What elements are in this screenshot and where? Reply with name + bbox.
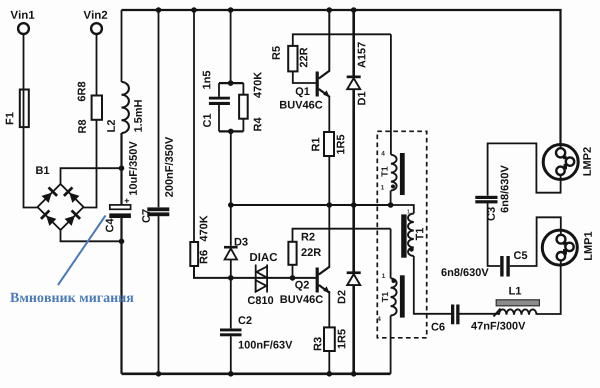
junction node A bridge plus (119, 165, 125, 171)
value label 10uF/350V (129, 141, 137, 195)
label Q2 (295, 281, 309, 291)
value label 6R8 (78, 82, 86, 101)
label T1 winding1 (381, 167, 387, 177)
value label 470K (200, 215, 208, 241)
wire Q2 emitter to R3 (328, 291, 330, 327)
label R2 (302, 233, 315, 241)
lamp LMP1 (542, 230, 577, 265)
label C4 (106, 219, 114, 233)
junction node bus-D1 (351, 7, 357, 13)
wire C3 top to LMP2 bottom pin (488, 143, 561, 195)
junction node bus-Q1 (327, 7, 333, 13)
wire Q1 collector from bus (328, 10, 330, 71)
pin number 4 T1 winding3 bottom (377, 317, 381, 322)
resistor R1 (324, 132, 334, 156)
wire R2 top to T1 winding3 (293, 229, 391, 242)
value label BUV46C (281, 295, 323, 303)
wire DC bus top rail (122, 10, 561, 145)
label DIAC (250, 253, 277, 261)
wire R6 column from bus (193, 10, 195, 242)
wire L1 to LMP1 bottom pin (537, 265, 561, 314)
wire bus to D1 (352, 10, 355, 76)
wire C1 R4 bottom connector (219, 130, 243, 132)
label L1 (509, 287, 521, 295)
label C1 (203, 114, 211, 127)
capacitor C1 (209, 97, 230, 105)
junction node midpoint-T1 (388, 202, 394, 208)
junction node bus-C1R4 (228, 7, 234, 13)
fuse F1 (20, 90, 29, 128)
label LMP2 (583, 147, 591, 175)
transformer T1 winding 1 core (400, 153, 405, 195)
pin number 1 T1 winding2 top (407, 209, 410, 213)
label C3 (487, 207, 495, 220)
label D1 (358, 92, 366, 105)
pin number 4 T1 winding1 top (381, 151, 385, 156)
label T1 winding2 (416, 228, 424, 240)
transformer T1 winding 1 polarity dot (391, 185, 395, 189)
wire T1 winding1 top lead (390, 34, 392, 154)
value label 47nF/300V (471, 322, 525, 330)
wire R3 to bottom rail (328, 351, 330, 374)
wire C7 column upper (158, 10, 160, 207)
transformer T1 winding 3 (391, 278, 397, 315)
label R1 (312, 138, 320, 151)
wire R2 bottom to diac rail (292, 265, 294, 278)
wire L2 to C4 column (120, 133, 122, 205)
diode D1 (347, 76, 361, 90)
diode D3 (224, 246, 238, 260)
wire LMP1 top pin to C5 (510, 217, 561, 266)
label D2 (338, 290, 346, 303)
capacitor C3 (475, 196, 497, 204)
value label 22R (301, 248, 321, 256)
value label 1R5 (337, 135, 345, 154)
label F1 (6, 112, 14, 124)
transformer T1 dashed enclosure (377, 131, 426, 337)
wire bottom rail (122, 372, 391, 375)
transformer T1 winding 2 core (401, 214, 406, 257)
label D3 (235, 238, 248, 246)
inductor L1 (494, 300, 540, 317)
junction node bus-R6 (191, 7, 197, 13)
terminal Vin2 (91, 23, 102, 34)
inductor L2 (122, 82, 129, 133)
wire T1 winding3 bottom to rail (390, 316, 392, 374)
wire D2 to bottom rail (352, 284, 355, 374)
capacitor C6 (451, 305, 460, 325)
capacitor C2 (220, 329, 242, 337)
junction node midpoint-Q (327, 202, 333, 208)
annotation text blue (10, 293, 133, 302)
value label 22R (300, 48, 308, 68)
value label BUV46C (280, 101, 322, 109)
value label 200nF/350V (165, 137, 173, 197)
value label A157 (358, 42, 366, 68)
junction node bus-C7 (156, 7, 162, 13)
label R6 (200, 250, 208, 263)
label C2 (239, 316, 252, 324)
wire R1 to midpoint (328, 156, 330, 205)
wire D3 anode lead (230, 205, 232, 246)
label R3 (314, 337, 322, 350)
label R4 (254, 118, 262, 131)
junction node bottom-R3 (327, 371, 333, 377)
wire D3 to diac rail (230, 260, 232, 329)
wire C5 to C3 column (488, 203, 501, 266)
transformer T1 winding 3 core (400, 275, 405, 317)
value label 470K (254, 72, 262, 98)
wire R5 top to T1 winding1 (293, 34, 391, 46)
resistor R6 (190, 242, 198, 266)
junction node B bridge minus (119, 239, 125, 245)
wire C6 to L1 (460, 313, 500, 315)
wire R5 bottom to Q1 base (293, 71, 316, 83)
terminal Vin1 (18, 23, 29, 34)
wire Vin1 to bridge left corner (24, 34, 38, 208)
label R5 (272, 46, 280, 59)
wire T1 winding2 bottom to C6 (414, 256, 451, 314)
wire T1 winding3 top lead (390, 229, 392, 279)
label R8 (78, 120, 86, 133)
junction node bottom-C7 (156, 371, 162, 377)
label Vin1 (11, 10, 35, 18)
junction node midpoint-D (351, 202, 357, 208)
wire Vin2 through R8 to bridge right corner (84, 34, 97, 208)
wire midpoint rail (231, 204, 391, 206)
resistor R5 (288, 46, 297, 72)
wire bridge top corner to node A (61, 168, 122, 184)
junction node diac rail D3 (228, 275, 234, 281)
label C7 (142, 209, 150, 222)
value label C810 (248, 296, 273, 304)
lamp LMP2 (543, 145, 578, 180)
label L2 (107, 120, 115, 132)
junction node C1R4 bottom (228, 129, 234, 135)
label C6 (432, 323, 445, 331)
wire C7 column lower (158, 216, 160, 374)
wire D1 to midpoint (352, 89, 355, 205)
wire midpoint dot to T1 winding2 top (391, 205, 414, 214)
wire R4 legs (242, 83, 244, 131)
wire C1R4 junction down to midpoint (230, 131, 232, 205)
wire C1 legs (218, 83, 220, 131)
diode D2 (347, 271, 361, 285)
wire bus stub to C1 R4 pair (230, 10, 232, 83)
transformer T1 winding 1 (391, 155, 397, 191)
resistor R8 (92, 96, 102, 120)
diac (256, 265, 267, 293)
wire Q1 emitter to R1 (328, 97, 330, 133)
junction node diac rail R2 (290, 275, 296, 281)
pin number 1 T1 winding3 top (382, 274, 385, 279)
capacitor C7 (147, 207, 169, 216)
label Vin2 (84, 10, 108, 18)
label B1 (36, 166, 49, 174)
wire L2 column upper (121, 10, 123, 82)
wire midpoint to Q2 collector (328, 205, 330, 267)
capacitor C5 (500, 256, 510, 277)
wire C4 to bottom rail (120, 218, 122, 374)
junction node C1R4 top (228, 80, 234, 86)
resistor R4 (239, 95, 248, 119)
transformer T1 winding 3 polarity dot (392, 279, 396, 283)
capacitor C4 polarized (109, 199, 131, 219)
label T1 winding3 (382, 292, 388, 302)
junction node midpoint-D3 (228, 202, 234, 208)
wire C1 R4 top connector (219, 82, 243, 84)
wire C2 to bottom rail (230, 336, 232, 374)
value label 6n8/630V (500, 165, 508, 212)
value label 100nF/63V (239, 341, 293, 349)
bridge rectifier B1 (38, 184, 84, 230)
junction node bottom-D2 (351, 371, 357, 377)
transistor Q2 (316, 267, 330, 294)
value label 6n8/630V (441, 268, 488, 276)
junction node bottom-C2 (228, 371, 234, 377)
value label 1R5 (338, 329, 346, 348)
wire midpoint to D2 (352, 205, 355, 272)
annotation arrow blue (58, 216, 106, 286)
transistor Q1 (316, 71, 330, 98)
transformer T1 winding 2 polarity dot (409, 247, 413, 251)
resistor R2 (288, 242, 296, 265)
resistor R3 (324, 327, 335, 351)
wire R6 to diac rail (194, 266, 316, 278)
value label 1.5mH (134, 100, 142, 132)
label C5 (514, 251, 527, 259)
label Q1 (296, 87, 310, 97)
wire T1 winding1 bottom lead (390, 191, 392, 206)
label LMP1 (584, 232, 592, 260)
transformer T1 winding 2 (408, 214, 414, 257)
pin number 1 T1 winding1 bottom (381, 185, 384, 190)
value label 1n5 (203, 71, 211, 89)
wire bridge bottom corner to node B (61, 230, 122, 241)
